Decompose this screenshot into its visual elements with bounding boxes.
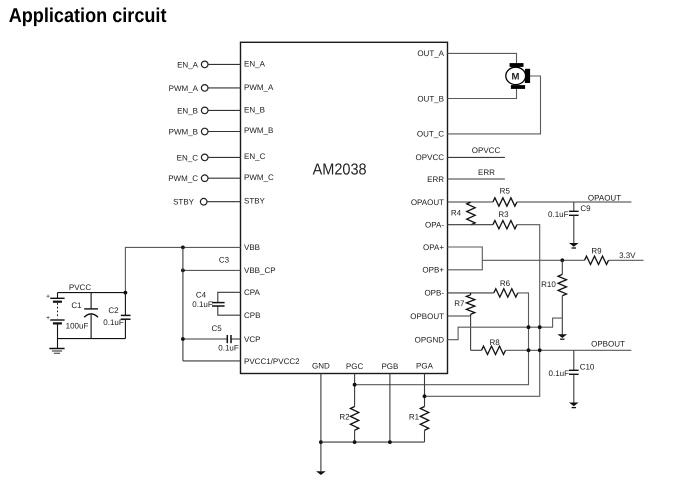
- resistor R3: [493, 210, 517, 229]
- svg-text:PVCC: PVCC: [69, 283, 91, 292]
- svg-text:EN_A: EN_A: [177, 60, 199, 69]
- wire GND vertical: [320, 374, 322, 472]
- svg-text:0.1uF: 0.1uF: [192, 300, 213, 309]
- svg-text:EN_C: EN_C: [244, 152, 266, 161]
- svg-text:PVCC1/PVCC2: PVCC1/PVCC2: [244, 357, 300, 366]
- battery BT1: [46, 293, 65, 349]
- pin EN_C: [177, 152, 266, 162]
- svg-text:R3: R3: [498, 210, 509, 219]
- svg-text:R7: R7: [454, 299, 465, 308]
- svg-text:R4: R4: [451, 209, 462, 218]
- pin PWM_A: [169, 83, 274, 93]
- op-amp U1 AM2038 IC body: [241, 42, 448, 373]
- wire OPAOUT line: [448, 201, 493, 203]
- svg-text:STBY: STBY: [244, 197, 266, 206]
- wire VCP: [183, 338, 227, 340]
- svg-text:Application circuit: Application circuit: [9, 5, 167, 27]
- svg-text:OPB+: OPB+: [422, 266, 444, 275]
- svg-text:+: +: [46, 315, 50, 322]
- wire OUT_A to motor: [448, 53, 517, 63]
- svg-text:C9: C9: [580, 204, 591, 213]
- svg-text:OUT_A: OUT_A: [417, 49, 444, 58]
- resistor R4: [451, 202, 475, 225]
- svg-text:C2: C2: [108, 306, 119, 315]
- wire OPBOUT pin stub: [448, 315, 471, 317]
- wire VBB: [125, 247, 240, 292]
- capacitor C1: [66, 293, 98, 339]
- junction PGA sense: [423, 394, 427, 398]
- svg-text:VBB: VBB: [244, 243, 260, 252]
- pin PWM_B: [169, 126, 274, 136]
- wire OUT_C to motor tab: [448, 76, 541, 134]
- wire left bus vertical: [182, 247, 184, 361]
- svg-text:0.1uF: 0.1uF: [548, 210, 569, 219]
- svg-text:PWM_A: PWM_A: [244, 83, 274, 92]
- resistor R7: [454, 293, 475, 316]
- junction R10 top: [560, 258, 564, 262]
- svg-text:OPVCC: OPVCC: [472, 146, 501, 155]
- wire OUT_B to motor: [448, 89, 517, 99]
- junction VBB: [181, 246, 185, 250]
- junction GND rail: [319, 440, 323, 444]
- svg-text:OPAOUT: OPAOUT: [411, 198, 444, 207]
- capacitor C5: [211, 324, 238, 353]
- svg-text:OPBOUT: OPBOUT: [410, 312, 444, 321]
- svg-text:100uF: 100uF: [66, 322, 89, 331]
- junction PGB rail: [388, 440, 392, 444]
- wire bottom rail: [58, 338, 126, 340]
- capacitor C4: [192, 291, 224, 309]
- svg-text:AM2038: AM2038: [313, 162, 367, 179]
- svg-text:PWM_C: PWM_C: [168, 174, 198, 183]
- svg-text:R10: R10: [541, 280, 556, 289]
- wire ERR stub: [448, 178, 505, 180]
- svg-text:OPGND: OPGND: [415, 336, 445, 345]
- svg-text:OPBOUT: OPBOUT: [591, 340, 625, 349]
- wire PGC vertical + resistor R2: [339, 374, 358, 443]
- svg-text:C5: C5: [211, 324, 222, 333]
- wire OPBOUT down to R8: [470, 316, 472, 350]
- capacitor C2: [103, 293, 130, 339]
- svg-text:PWM_C: PWM_C: [244, 173, 274, 182]
- motor M1: [506, 63, 530, 89]
- svg-text:PWM_B: PWM_B: [244, 126, 273, 135]
- svg-text:EN_B: EN_B: [244, 105, 265, 114]
- wire OPA- line: [448, 224, 493, 226]
- svg-text:GND: GND: [312, 362, 330, 371]
- pin PWM_C: [168, 173, 274, 183]
- svg-text:C10: C10: [580, 363, 595, 372]
- wire PGB vertical: [389, 374, 391, 443]
- capacitor C10: [549, 350, 595, 402]
- svg-text:CPA: CPA: [244, 288, 261, 297]
- ground below C10: [569, 403, 579, 408]
- svg-text:R9: R9: [591, 246, 602, 255]
- svg-text:OPB-: OPB-: [424, 289, 444, 298]
- svg-text:R2: R2: [339, 413, 350, 422]
- svg-text:OUT_C: OUT_C: [417, 130, 444, 139]
- svg-text:EN_A: EN_A: [244, 59, 266, 68]
- svg-text:OPA-: OPA-: [425, 221, 444, 230]
- wire OPB- line: [448, 292, 494, 294]
- svg-text:C1: C1: [71, 301, 82, 310]
- svg-text:PGA: PGA: [416, 362, 434, 371]
- svg-text:ERR: ERR: [478, 168, 495, 177]
- resistor R8: [471, 338, 506, 355]
- svg-text:0.1uF: 0.1uF: [218, 344, 239, 353]
- ground below R10: [558, 334, 568, 339]
- svg-text:VBB_CP: VBB_CP: [244, 266, 276, 275]
- svg-text:PWM_A: PWM_A: [169, 84, 199, 93]
- svg-text:EN_B: EN_B: [177, 106, 198, 115]
- svg-text:PGB: PGB: [381, 362, 398, 371]
- capacitor C9: [548, 202, 591, 243]
- resistor R9: [585, 246, 609, 264]
- wire OPA+ / OPB+ box: [448, 247, 483, 270]
- wire VBB_CP: [183, 269, 241, 271]
- wire PGA vertical + resistor R1: [409, 374, 429, 443]
- wire OPBOUT output line: [506, 349, 632, 351]
- svg-text:C4: C4: [196, 291, 207, 300]
- pin EN_B: [177, 105, 265, 115]
- svg-text:R6: R6: [500, 279, 511, 288]
- svg-text:+: +: [46, 294, 50, 301]
- svg-text:M: M: [512, 71, 520, 82]
- ground earth left: [49, 349, 64, 354]
- svg-text:VCP: VCP: [244, 335, 260, 344]
- resistor R5: [493, 187, 517, 207]
- svg-text:EN_C: EN_C: [177, 153, 199, 162]
- junction PGC sense: [353, 383, 357, 387]
- svg-text:PGC: PGC: [346, 362, 364, 371]
- svg-text:OPA+: OPA+: [423, 243, 444, 252]
- svg-text:R5: R5: [500, 187, 511, 196]
- junction R2 bottom: [353, 440, 357, 444]
- wire OPVCC stub: [448, 156, 505, 158]
- wire 3.3V net: [482, 259, 584, 261]
- resistor R6: [494, 279, 518, 297]
- svg-text:0.1uF: 0.1uF: [549, 369, 570, 378]
- wire CPA/CPB loop: [218, 292, 241, 302]
- wire OPGND step: [448, 318, 563, 340]
- ground arrow below GND: [316, 471, 326, 475]
- wire PVCC1/PVCC2: [183, 360, 241, 362]
- wire bottom sense rail: [321, 441, 425, 443]
- svg-text:OPAOUT: OPAOUT: [588, 193, 621, 202]
- junction dots on sense verticals: [527, 325, 531, 329]
- ground below C9: [569, 243, 579, 248]
- svg-text:STBY: STBY: [173, 198, 195, 207]
- svg-text:OUT_B: OUT_B: [417, 94, 444, 103]
- svg-text:PWM_B: PWM_B: [169, 127, 198, 136]
- pin STBY: [173, 197, 265, 207]
- resistor R10: [541, 260, 566, 334]
- pin EN_A: [177, 59, 265, 69]
- wire PVCC rail: [58, 292, 126, 294]
- svg-text:R1: R1: [409, 413, 420, 422]
- svg-text:ERR: ERR: [427, 175, 444, 184]
- junction VBB_CP: [181, 269, 185, 273]
- svg-text:C3: C3: [219, 255, 230, 264]
- svg-text:3.3V: 3.3V: [619, 251, 636, 260]
- junction PVCC/C2: [124, 291, 128, 295]
- junction VCP: [181, 337, 185, 341]
- svg-text:OPVCC: OPVCC: [416, 153, 445, 162]
- svg-text:0.1uF: 0.1uF: [103, 318, 124, 327]
- svg-text:CPB: CPB: [244, 311, 260, 320]
